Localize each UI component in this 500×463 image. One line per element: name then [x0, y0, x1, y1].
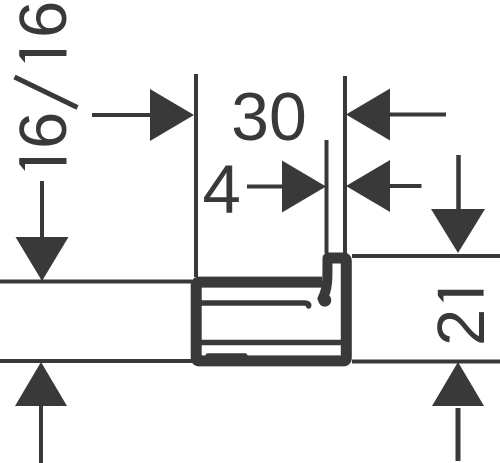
extension line middle (x=326.5) [325, 140, 329, 253]
wall line bottom right (y=361.5) [352, 360, 500, 364]
extension line left (x=197) [194, 74, 198, 277]
dimension label 16/16 (rotated): digit 1 (bottom) [19, 158, 66, 171]
svg-text:6: 6 [6, 112, 81, 149]
profile outer shell [196, 258, 346, 361]
arrow down for 21 (shaft) [456, 155, 461, 212]
wall line top left (y=281.5) [0, 280, 192, 284]
wall line top right (y=256) [352, 254, 500, 258]
profile inner web lower [200, 340, 341, 346]
arrow up bottom left (head) [15, 362, 67, 406]
arrow right for 4 (head) [282, 161, 326, 213]
dimension label 16/16: digit 1 (second from top) [19, 50, 66, 63]
wall line bottom left (y=361) [0, 359, 192, 363]
arrow right for 4 (shaft) [247, 185, 284, 189]
arrow left for 4 (shaft) [390, 184, 422, 188]
svg-text:4: 4 [203, 151, 241, 228]
profile bottom ridge [206, 353, 248, 359]
profile inner web upper [200, 303, 309, 306]
arrow up for 21 (shaft) [456, 408, 461, 461]
dimension label 21: digit 1 [438, 290, 484, 303]
extension line right (x=345) [343, 76, 347, 255]
arrow up bottom left (shaft) [39, 404, 43, 463]
profile hook lip [323, 258, 328, 299]
profile hook lip tip [318, 294, 331, 307]
svg-text:6: 6 [6, 1, 81, 38]
arrow down for 16/16 (head) [16, 237, 69, 281]
arrow left for 30 (head) [346, 89, 390, 141]
arrow left for 4 (head) [346, 160, 390, 212]
arrow up for 21 (head) [432, 362, 484, 406]
dimension label 16/16: slash [15, 77, 78, 108]
arrow down for 16/16 (shaft) [40, 181, 44, 240]
arrow left for 30 (shaft) [390, 113, 446, 117]
svg-text:2: 2 [424, 309, 499, 346]
arrow down for 21 (head) [431, 209, 485, 253]
arrow right for 30 (head) [150, 89, 194, 141]
svg-text:30: 30 [231, 79, 307, 155]
arrow right for 30 (shaft) [92, 113, 152, 117]
